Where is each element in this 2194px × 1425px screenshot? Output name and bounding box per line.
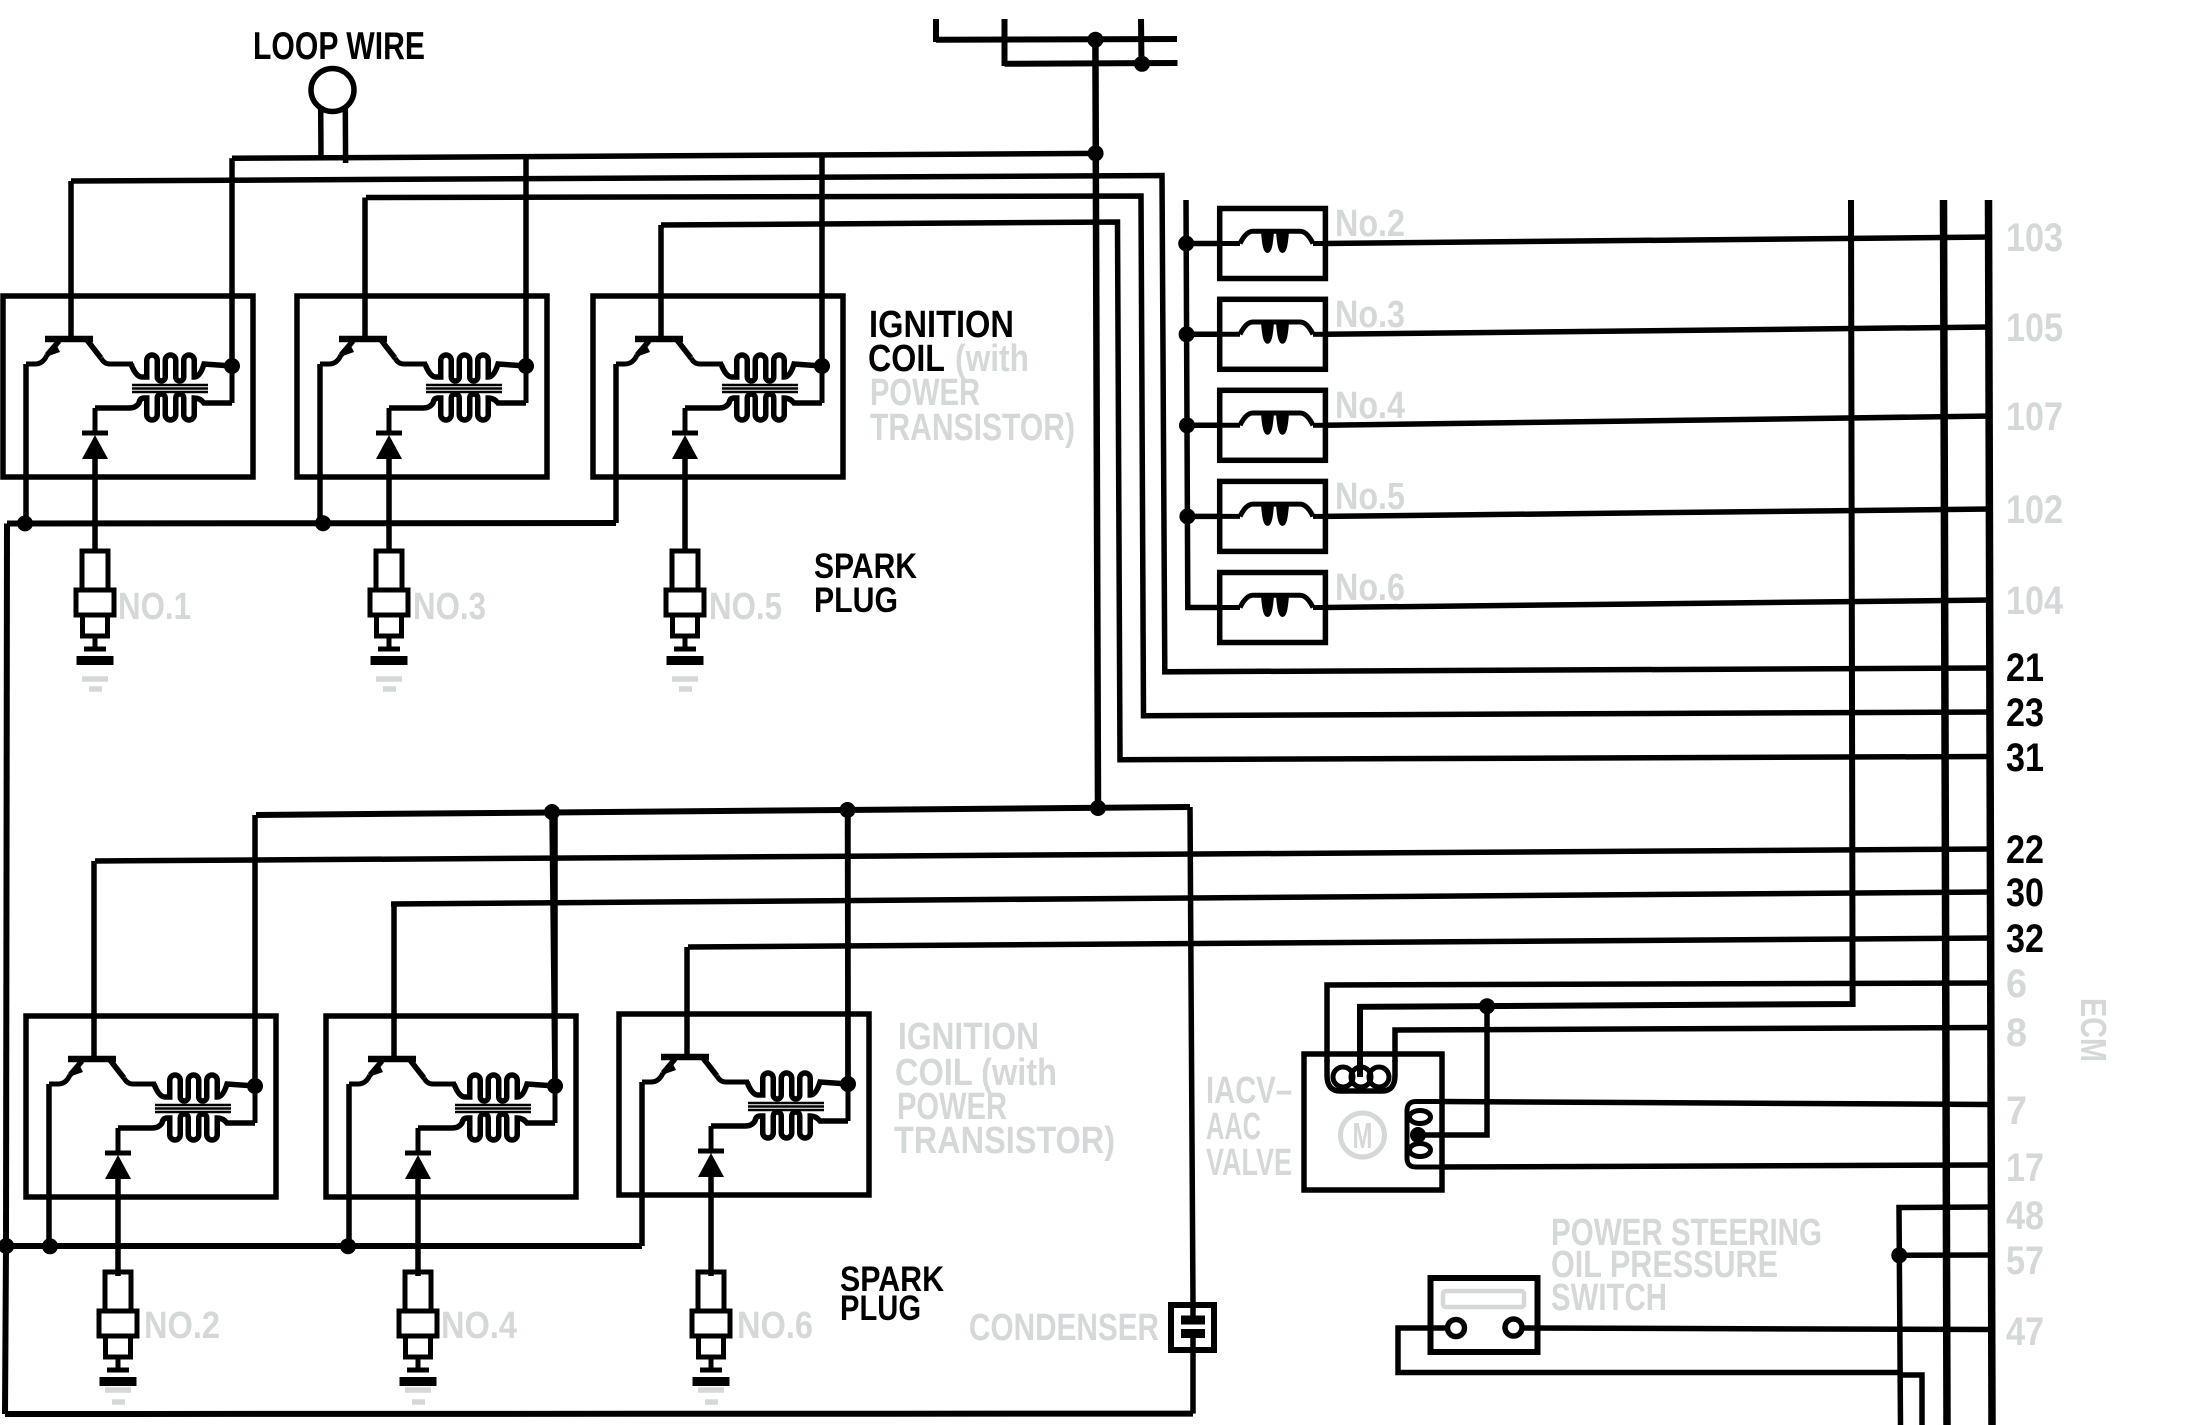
injector No.3 coil	[1220, 322, 1326, 343]
wire: base signal 3 (to pin 23)	[366, 196, 1991, 716]
ground (NO.3)	[376, 679, 402, 689]
diode (top No.5)	[672, 408, 698, 459]
power transistor (top No.3)	[320, 339, 427, 364]
svg-text:NO.5: NO.5	[709, 586, 782, 628]
ground (NO.1)	[82, 679, 108, 689]
power transistor (bottom No.4)	[349, 1059, 456, 1084]
label LOOP WIRE	[253, 25, 425, 68]
node: injector bus junction No.4	[1179, 417, 1195, 433]
injector No.2 box	[1220, 209, 1326, 279]
wire: bottom border	[5, 1411, 1193, 1417]
switch contact left	[1448, 1320, 1465, 1337]
label ECM	[2073, 998, 2114, 1062]
svg-text:NO.6: NO.6	[737, 1305, 813, 1347]
pin 6 label	[2006, 962, 2027, 1006]
ignition coil module box (bottom No.4)	[326, 1016, 576, 1197]
wire: injector No.5 to ECM	[1325, 509, 1991, 516]
node: lower bus junction main feed	[1090, 800, 1106, 816]
wire: main power vertical	[1095, 40, 1098, 808]
pin 30 label	[2006, 871, 2044, 915]
svg-text:VALVE: VALVE	[1206, 1142, 1292, 1184]
wire: condenser to ground border	[1190, 1350, 1196, 1414]
node: B+ junction (top No.3)	[518, 358, 534, 403]
spark plug NO.4	[399, 1272, 437, 1386]
spark plug NO.1	[76, 551, 114, 665]
wire: emitter to bus (top No.3)	[317, 364, 323, 523]
svg-text:102: 102	[2006, 488, 2063, 532]
wire: crossing stub	[1002, 19, 1008, 66]
wire: injector No.3 to ECM	[1325, 327, 1991, 334]
node: junction on line B	[1134, 56, 1150, 72]
node: injector bus junction No.2	[1178, 236, 1194, 252]
wire: B+ drop No.6	[845, 810, 851, 1084]
node: lower bus junction No.4	[544, 804, 560, 820]
svg-text:7: 7	[2006, 1089, 2027, 1133]
svg-text:22: 22	[2006, 828, 2044, 872]
wire: stub to line B	[1138, 19, 1145, 66]
IACV-AAC valve box	[1304, 1054, 1442, 1190]
ignition coil module box (bottom No.6)	[619, 1014, 869, 1195]
pin 103 label	[2006, 216, 2063, 260]
svg-text:NO.1: NO.1	[118, 586, 191, 628]
ignition coil secondary winding (bottom No.2)	[118, 1114, 255, 1140]
wire: emitter to bus (bottom No.6)	[639, 1082, 645, 1246]
ground (NO.4)	[405, 1390, 431, 1402]
ignition coil secondary winding (bottom No.6)	[711, 1112, 848, 1138]
pin 7 label	[2006, 1089, 2027, 1133]
label SPARK PLUG (top)	[814, 547, 917, 620]
wire: base signal 6 (to pin 32)	[688, 938, 1991, 947]
wire: diode to spark plug (bottom No.4)	[415, 1179, 421, 1276]
wire: emitter to bus (bottom No.4)	[346, 1084, 352, 1246]
wire: emitter bus (bottom row)	[6, 1243, 642, 1249]
svg-text:M: M	[1353, 1115, 1373, 1156]
wire: ignition primary feed W1	[232, 153, 1096, 158]
transformer core (bottom No.4)	[455, 1105, 531, 1112]
node: IACV feed junction	[1479, 998, 1495, 1014]
wire: B+ feed up (bottom No.6)	[845, 810, 851, 1084]
wire: ECM boundary inner vertical	[1944, 200, 1948, 1425]
node: bus2 junction No.4	[340, 1238, 356, 1254]
label NO.3	[413, 586, 486, 628]
ignition coil primary winding (bottom No.2)	[154, 1075, 255, 1101]
label injector No.4	[1335, 385, 1405, 427]
power steering oil pressure switch box	[1431, 1278, 1538, 1352]
diode (bottom No.2)	[105, 1128, 131, 1179]
ignition coil secondary winding (top No.3)	[389, 394, 526, 420]
svg-text:NO.2: NO.2	[144, 1305, 220, 1347]
ignition coil primary winding (top No.5)	[721, 355, 822, 381]
node: junction on line A	[1087, 32, 1103, 48]
label injector No.2	[1335, 203, 1405, 245]
svg-text:No.3: No.3	[1335, 294, 1405, 336]
svg-text:TRANSISTOR): TRANSISTOR)	[870, 407, 1075, 449]
wire: emitter to bus (bottom No.2)	[46, 1084, 52, 1246]
svg-text:105: 105	[2006, 306, 2063, 350]
ignition coil module box (top No.1)	[3, 296, 253, 477]
power transistor (top No.1)	[26, 339, 133, 364]
switch contact right	[1505, 1319, 1522, 1336]
diode (top No.3)	[376, 408, 402, 459]
svg-text:TRANSISTOR): TRANSISTOR)	[894, 1120, 1115, 1162]
switch lever	[1443, 1291, 1524, 1307]
svg-text:17: 17	[2006, 1146, 2044, 1190]
ground (NO.2)	[105, 1390, 131, 1402]
pin 17 label	[2006, 1146, 2044, 1190]
wire: IACV power feed	[1360, 200, 1853, 1077]
label injector No.3	[1335, 294, 1405, 336]
power transistor (top No.5)	[616, 339, 723, 364]
wire: injector No.3 branch	[1187, 332, 1220, 338]
label IACV-AAC VALVE	[1206, 1070, 1292, 1184]
svg-text:No.2: No.2	[1335, 203, 1405, 245]
transformer core (top No.1)	[132, 385, 208, 392]
label NO.5	[709, 586, 782, 628]
ignition coil module box (top No.3)	[297, 296, 547, 477]
wire: battery feed stub	[933, 19, 939, 42]
diode (bottom No.6)	[698, 1126, 724, 1177]
svg-text:No.4: No.4	[1335, 385, 1405, 427]
wire: diode to spark plug (bottom No.6)	[708, 1177, 714, 1276]
injector No.4 box	[1220, 390, 1326, 460]
wire: injector No.5 branch	[1187, 514, 1219, 520]
wire: lower B+ bus	[256, 807, 1190, 815]
svg-text:103: 103	[2006, 216, 2063, 260]
wire: emitter to bus (top No.5)	[613, 364, 619, 523]
node: B+ junction (bottom No.2)	[247, 1078, 263, 1123]
loop wire symbol	[311, 69, 354, 164]
wire: pin 48 feed	[1899, 1207, 1991, 1425]
wire: B+ drop No.4	[552, 812, 555, 1086]
wire: FICD center tap feed	[1418, 1006, 1487, 1135]
label injector No.5	[1335, 476, 1405, 518]
node: bus1 junction No.3	[315, 515, 331, 531]
pin 22 label	[2006, 828, 2044, 872]
svg-text:104: 104	[2006, 579, 2064, 623]
wire: base feed (bottom No.6)	[684, 947, 690, 1057]
pin 102 label	[2006, 488, 2063, 532]
svg-text:48: 48	[2006, 1194, 2044, 1238]
wire: AAC coil to pin 8	[1395, 1028, 1991, 1063]
wire: base feed (top No.5)	[658, 225, 664, 339]
svg-text:57: 57	[2006, 1239, 2044, 1283]
svg-text:107: 107	[2006, 395, 2063, 439]
wire: diode to spark plug (bottom No.2)	[115, 1179, 121, 1276]
ignition coil primary winding (top No.3)	[425, 355, 526, 381]
ignition coil secondary winding (top No.5)	[685, 394, 822, 420]
svg-text:NO.3: NO.3	[413, 586, 486, 628]
IACV AAC solenoid coil	[1327, 1060, 1395, 1091]
wire: injector No.4 branch	[1187, 423, 1220, 429]
pin 48 label	[2006, 1194, 2044, 1238]
svg-text:6: 6	[2006, 962, 2027, 1006]
motor M symbol	[1341, 1113, 1385, 1157]
node: B+ junction (top No.1)	[224, 358, 240, 403]
node: bus1 junction No.1	[17, 515, 33, 531]
injector No.6 coil	[1220, 595, 1326, 616]
wire: switch to pin 47	[1521, 1328, 1991, 1330]
wire: battery line A	[936, 36, 1177, 43]
wire: battery line B	[1005, 60, 1178, 67]
wire: B+ feed up (top No.5)	[819, 155, 825, 366]
wire: bottom hook	[1900, 1375, 1922, 1425]
wire: base feed (bottom No.4)	[391, 904, 397, 1059]
wire: bus1 drop to lower section	[6, 524, 7, 1247]
wire: diode to spark plug (top No.3)	[386, 459, 392, 551]
wire: condenser feed	[1190, 807, 1193, 1305]
ignition coil secondary winding (top No.1)	[95, 394, 232, 420]
wire: B+ feed up (bottom No.4)	[552, 812, 558, 1086]
wire: FICD bottom to pin 17	[1440, 1165, 1991, 1167]
node: B+ junction (top No.5)	[814, 358, 830, 403]
wire: diode to spark plug (top No.1)	[92, 459, 98, 551]
node: pin 57 junction	[1891, 1247, 1907, 1263]
label NO.4	[441, 1305, 517, 1347]
wire: pin 57 branch	[1899, 1252, 1991, 1258]
wire: B+ feed up (top No.3)	[523, 157, 529, 366]
ground (NO.5)	[672, 679, 698, 689]
spark plug NO.3	[370, 551, 408, 665]
wire: injector No.2 branch	[1186, 241, 1220, 247]
svg-text:ECM: ECM	[2073, 998, 2114, 1062]
node: B+ junction (bottom No.6)	[840, 1076, 856, 1121]
svg-text:31: 31	[2006, 736, 2044, 780]
transformer core (top No.3)	[426, 385, 502, 392]
node: junction power/ignition feed	[1088, 145, 1104, 161]
wire: emitter to bus (top No.1)	[23, 364, 29, 523]
injector No.3 box	[1220, 299, 1326, 369]
condenser	[1171, 1305, 1214, 1350]
wire: left border vertical	[5, 1246, 6, 1414]
node: B+ junction (bottom No.4)	[547, 1078, 563, 1123]
svg-text:8: 8	[2006, 1011, 2027, 1055]
label SPARK PLUG (bottom)	[840, 1260, 944, 1328]
ignition coil module box (bottom No.2)	[26, 1016, 276, 1197]
wire: injector No.6 to ECM	[1325, 600, 1991, 608]
wire: B+ feed up (top No.1)	[229, 158, 235, 366]
wire: ECM boundary edge vertical	[1989, 200, 1993, 1425]
wire: injector No.2 to ECM	[1325, 237, 1991, 244]
pin 57 label	[2006, 1239, 2044, 1283]
ignition coil secondary winding (bottom No.4)	[418, 1114, 555, 1140]
wire: switch to ground loop	[1398, 1328, 1900, 1373]
IACV FICD solenoid coil	[1407, 1102, 1445, 1168]
label injector No.6	[1335, 567, 1405, 609]
svg-text:SWITCH: SWITCH	[1551, 1277, 1667, 1319]
pin 47 label	[2006, 1310, 2044, 1354]
svg-text:23: 23	[2006, 691, 2044, 735]
svg-text:No.6: No.6	[1335, 567, 1405, 609]
injector No.5 box	[1220, 481, 1326, 551]
ground (NO.6)	[698, 1390, 724, 1402]
svg-text:PLUG: PLUG	[814, 581, 898, 620]
node: injector bus junction No.3	[1179, 326, 1195, 342]
ignition coil primary winding (bottom No.4)	[454, 1075, 555, 1101]
svg-text:32: 32	[2006, 917, 2044, 961]
wire: base signal 2 (to pin 22)	[95, 849, 1991, 861]
pin 107 label	[2006, 395, 2063, 439]
node: bus2 left junction	[0, 1238, 14, 1254]
pin 21 label	[2006, 646, 2044, 690]
label IGNITION COIL (bottom, gray)	[894, 1016, 1115, 1162]
label NO.6	[737, 1305, 813, 1347]
wire: base feed (top No.1)	[68, 181, 74, 339]
svg-text:CONDENSER: CONDENSER	[969, 1307, 1159, 1349]
ignition coil module box (top No.5)	[593, 296, 843, 477]
ignition coil primary winding (bottom No.6)	[747, 1073, 848, 1099]
spark plug NO.5	[666, 551, 704, 665]
diode (bottom No.4)	[405, 1128, 431, 1179]
transformer core (bottom No.2)	[155, 1105, 231, 1112]
pin 8 label	[2006, 1011, 2027, 1055]
wire: base feed (top No.3)	[362, 198, 368, 340]
wire: base signal 1 (to pin 21)	[71, 176, 1991, 672]
svg-text:PLUG: PLUG	[840, 1289, 921, 1328]
transformer core (top No.5)	[722, 385, 798, 392]
ignition coil primary winding (top No.1)	[131, 355, 232, 381]
wire: injector No.4 to ECM	[1325, 416, 1991, 425]
diode (top No.1)	[82, 408, 108, 459]
wire: diode to spark plug (top No.5)	[682, 459, 688, 551]
svg-text:47: 47	[2006, 1310, 2044, 1354]
pin 23 label	[2006, 691, 2044, 735]
svg-text:21: 21	[2006, 646, 2044, 690]
pin 105 label	[2006, 306, 2063, 350]
transformer core (bottom No.6)	[748, 1103, 824, 1110]
label NO.1	[118, 586, 191, 628]
wire: FICD top to pin 7	[1440, 1102, 1991, 1105]
injector No.4 coil	[1220, 413, 1326, 434]
power transistor (bottom No.2)	[49, 1059, 156, 1084]
spark plug NO.6	[692, 1272, 730, 1386]
wire: injector supply bus	[1186, 200, 1220, 608]
svg-text:No.5: No.5	[1335, 476, 1405, 518]
svg-text:30: 30	[2006, 871, 2044, 915]
pin 31 label	[2006, 736, 2044, 780]
power transistor (bottom No.6)	[642, 1057, 749, 1082]
injector No.2 coil	[1220, 231, 1326, 252]
wire: B+ feed up (bottom No.2)	[252, 815, 258, 1086]
svg-text:NO.4: NO.4	[441, 1305, 517, 1347]
wire: base signal 5 (to pin 31)	[661, 222, 1991, 760]
node: injector bus junction No.5	[1179, 508, 1195, 524]
label (with POWER TRANSISTOR)	[870, 338, 1075, 449]
wire: emitter bus (top row)	[7, 520, 616, 527]
node: lower bus junction No.6	[840, 802, 856, 818]
label POWER STEERING OIL PRESSURE SWITCH	[1551, 1212, 1822, 1319]
label NO.2	[144, 1305, 220, 1347]
wire: base signal 4 (to pin 30)	[391, 892, 1991, 904]
svg-text:LOOP WIRE: LOOP WIRE	[253, 25, 425, 68]
label CONDENSER	[969, 1307, 1159, 1349]
pin 104 label	[2006, 579, 2064, 623]
label IGNITION COIL	[868, 304, 1014, 380]
pin 32 label	[2006, 917, 2044, 961]
injector No.5 coil	[1220, 504, 1326, 525]
injector No.6 box	[1220, 573, 1326, 643]
node: bus2 junction No.2	[42, 1238, 58, 1254]
wire: base feed (bottom No.2)	[91, 861, 97, 1059]
spark plug NO.2	[99, 1272, 137, 1386]
wire: AAC coil to pin 6	[1327, 983, 1991, 1062]
